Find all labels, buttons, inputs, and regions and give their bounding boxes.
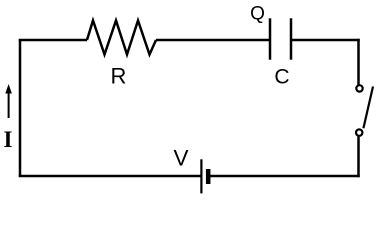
wire right lower vertical [357,136,360,177]
switch S1 upper terminal [356,85,362,91]
switch S1 blade [363,87,373,129]
svg-text:R: R [111,64,127,89]
svg-text:V: V [173,146,188,171]
current arrow I [5,84,12,118]
battery V short plate [206,169,211,184]
wire right upper vertical [357,39,360,85]
switch S1 lower terminal [356,129,362,135]
wire left vertical [19,39,22,177]
capacitor C left plate [269,18,272,59]
wire top left segment [19,39,87,42]
wire bottom left segment [19,175,201,178]
svg-text:C: C [274,66,289,89]
wire bottom right segment [208,175,360,178]
resistor R [87,21,156,55]
svg-text:Q: Q [250,4,265,25]
capacitor C right plate [290,18,293,59]
wire top right segment [291,39,360,42]
svg-text:I: I [4,127,13,152]
battery V long plate [200,159,202,193]
wire top middle segment [156,39,270,42]
